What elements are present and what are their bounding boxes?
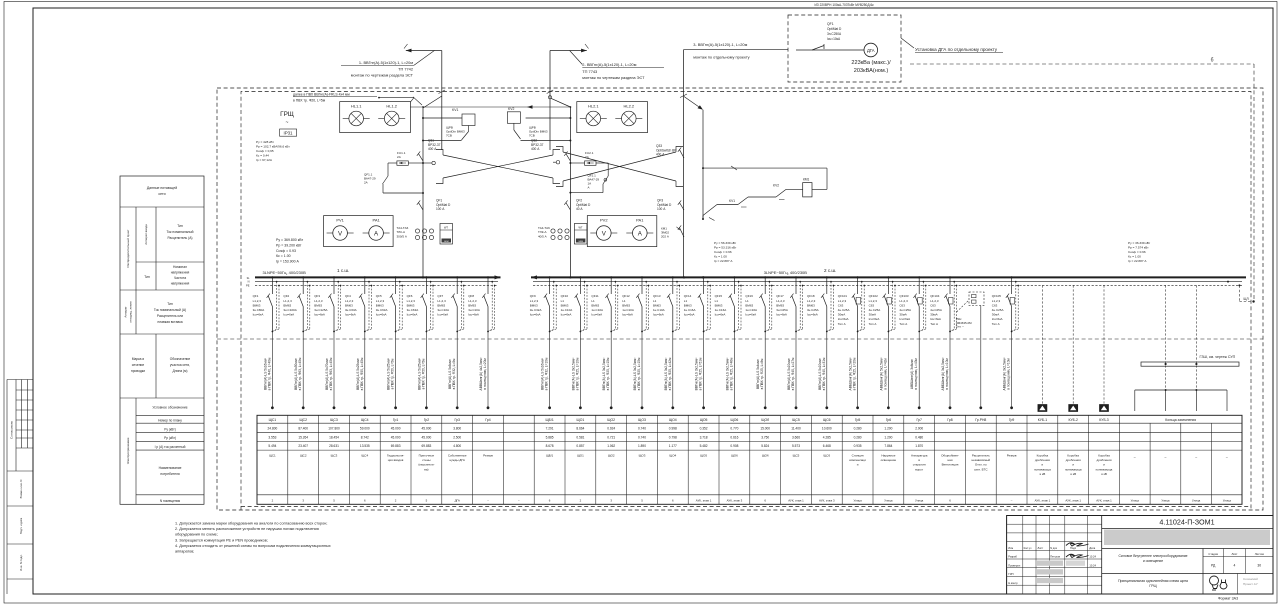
svg-text:23.407: 23.407 <box>298 444 308 448</box>
switch Q31 <box>417 139 441 162</box>
svg-text:KV1: KV1 <box>452 108 459 112</box>
svg-text:2. Допускается менять располож: 2. Допускается менять расположение устро… <box>175 527 319 531</box>
svg-text:ВМ63: ВМ63 <box>745 303 753 307</box>
svg-text:L1,2,3: L1,2,3 <box>376 299 385 303</box>
svg-text:1. Допускается замена марки об: 1. Допускается замена марки оборудования… <box>175 522 327 526</box>
svg-text:открытия: открытия <box>913 463 926 467</box>
svg-text:Cosф = 0.96: Cosф = 0.96 <box>1128 250 1146 254</box>
svg-text:ВМ63: ВМ63 <box>807 303 815 307</box>
relay KV2 text <box>529 126 548 138</box>
svg-text:Силовое Внутреннее электрообор: Силовое Внутреннее электрооборудование <box>1118 554 1187 558</box>
svg-text:203кВА(ном.): 203кВА(ном.) <box>854 68 889 74</box>
svg-text:400 А: 400 А <box>531 147 540 151</box>
svg-text:(перспекти-: (перспекти- <box>418 463 434 467</box>
svg-text:АУК, этаж 3: АУК, этаж 3 <box>727 499 743 503</box>
svg-text:сигн. БТС: сигн. БТС <box>974 467 988 471</box>
svg-text:сечение: сечение <box>132 363 145 367</box>
breaker QF2 incomer <box>564 199 591 212</box>
svg-text:в помещении, L=20м: в помещении, L=20м <box>483 358 487 390</box>
CT TA4-TA6 incomer1 <box>397 226 434 240</box>
svg-text:оборудования по схеме;: оборудования по схеме; <box>175 533 218 537</box>
svg-text:Гр2: Гр2 <box>424 418 430 422</box>
svg-text:Тип А: Тип А <box>869 322 877 326</box>
lamp box 1 feed wire <box>378 97 414 102</box>
svg-text:Проект А.Г: Проект А.Г <box>1243 582 1259 586</box>
svg-text:монтаж по отдельному проекту: монтаж по отдельному проекту <box>693 54 749 59</box>
svg-text:Формат 3А3: Формат 3А3 <box>1218 597 1238 601</box>
left table row Условное обозначение <box>152 406 187 410</box>
svg-text:дробления: дробления <box>1035 458 1050 462</box>
svg-text:в помещении, L=10м: в помещении, L=10м <box>945 358 949 390</box>
DGA dashed box <box>788 15 901 82</box>
svg-text:QF6: QF6 <box>407 294 413 298</box>
svg-text:2.000: 2.000 <box>915 426 923 430</box>
svg-text:QF9: QF9 <box>530 294 536 298</box>
svg-text:2А: 2А <box>364 181 368 185</box>
svg-text:Улица: Улица <box>1192 499 1201 503</box>
svg-text:Установка ДГА по отдельному пр: Установка ДГА по отдельному проекту <box>915 47 998 52</box>
svg-text:освещение: освещение <box>881 458 897 462</box>
feeder breaker QF103 col 22 <box>899 276 926 409</box>
svg-text:L1: L1 <box>591 299 595 303</box>
left table row Аппарат отходящей линии <box>124 301 187 324</box>
bus junction DGA <box>683 276 704 278</box>
kWh meter incomer 1 <box>440 224 453 245</box>
svg-text:0.352: 0.352 <box>700 426 708 430</box>
switch Q32 <box>531 139 570 162</box>
svg-text:Тип: Тип <box>177 224 183 228</box>
svg-text:Ру = 36.339 кВт: Ру = 36.339 кВт <box>1128 241 1151 245</box>
kWh meter incomer 2 <box>574 224 587 245</box>
svg-text:QF101: QF101 <box>838 294 848 298</box>
svg-text:ЩС6: ЩС6 <box>823 418 831 422</box>
svg-text:Расцепитель: Расцепитель <box>972 454 990 458</box>
feeder breaker QF8 col 8 <box>468 276 495 409</box>
left table row N помещения <box>160 499 181 503</box>
svg-text:Собственные: Собственные <box>448 454 467 458</box>
left table row Номер по плану <box>158 419 182 423</box>
svg-text:3н.С25А: 3н.С25А <box>776 308 788 312</box>
svg-text:Взамен инв. N: Взамен инв. N <box>19 480 23 499</box>
svg-text:ция вводов: ция вводов <box>388 458 404 462</box>
feeder breaker QF2 col 2 <box>283 276 310 409</box>
svg-text:АУК, этаж 1: АУК, этаж 1 <box>1096 499 1112 503</box>
bus params section2 <box>714 241 737 263</box>
left table grid <box>120 176 204 504</box>
svg-text:Гр1: Гр1 <box>393 418 399 422</box>
svg-text:ГРЩ: ГРЩ <box>280 111 294 118</box>
svg-text:0.280: 0.280 <box>854 426 862 430</box>
svg-text:я кВ: я кВ <box>1070 472 1076 476</box>
svg-text:монтаж по чертежам раздела ЭСТ: монтаж по чертежам раздела ЭСТ <box>582 75 645 80</box>
svg-text:0.280: 0.280 <box>854 435 862 439</box>
svg-text:4.285: 4.285 <box>823 435 831 439</box>
svg-text:8.678: 8.678 <box>546 444 554 448</box>
svg-text:Тип: Тип <box>167 302 173 306</box>
svg-text:КМ1: КМ1 <box>803 178 810 182</box>
svg-text:1.177: 1.177 <box>669 444 677 448</box>
svg-text:QF1: QF1 <box>827 22 834 26</box>
svg-text:3н.С250А: 3н.С250А <box>827 32 842 36</box>
dashed link b to right side <box>910 58 1254 302</box>
feeder breaker QF3 col 3 <box>314 276 341 409</box>
svg-text:Icu=6кА: Icu=6кА <box>653 313 664 317</box>
svg-text:Номинал: Номинал <box>173 265 187 269</box>
svg-text:400 А: 400 А <box>656 153 665 157</box>
KM1 control circuit <box>702 166 827 221</box>
svg-text:–: – <box>1226 455 1228 459</box>
svg-text:независимый: независимый <box>971 458 990 462</box>
changeover terminal 2 <box>553 161 560 164</box>
svg-text:ВМ63: ВМ63 <box>468 303 476 307</box>
svg-text:я кВ: я кВ <box>1040 472 1046 476</box>
title block signatures <box>1008 543 1096 585</box>
svg-text:Изм: Изм <box>1008 546 1013 550</box>
breaker QF3 <box>657 199 684 212</box>
svg-text:Icu=10кА: Icu=10кА <box>827 37 841 41</box>
svg-text:L1,2,3: L1,2,3 <box>899 299 908 303</box>
feeder breaker QF5 col 5 <box>376 276 403 409</box>
svg-text:напряжения: напряжения <box>171 271 190 275</box>
relay KV1 branch <box>422 108 475 142</box>
svg-text:QF1: QF1 <box>253 294 259 298</box>
svg-text:Принципиальная однолинейная сх: Принципиальная однолинейная схема щита <box>1118 579 1188 583</box>
bus params section1 <box>276 238 303 264</box>
svg-text:1н.С16А: 1н.С16А <box>715 308 727 312</box>
svg-text:ЩС6: ЩС6 <box>823 454 830 458</box>
PE conductor <box>255 284 1242 286</box>
svg-text:L1,2,3: L1,2,3 <box>992 299 1001 303</box>
svg-text:нужды ДГА: нужды ДГА <box>449 458 464 462</box>
svg-text:3н.С125А: 3н.С125А <box>314 308 327 312</box>
feeder breaker QF4 col 4 <box>345 276 372 409</box>
svg-text:4н.С25А: 4н.С25А <box>899 308 911 312</box>
svg-text:L1,2,3: L1,2,3 <box>345 299 354 303</box>
earthing ring connections <box>1135 285 1227 411</box>
svg-text:Рр = 102,7 кВА/96,6 кВт: Рр = 102,7 кВА/96,6 кВт <box>256 145 290 149</box>
svg-text:КУБ-1: КУБ-1 <box>1038 418 1048 422</box>
svg-text:в ПВХ тр. Ф25, L=42м: в ПВХ тр. Ф25, L=42м <box>668 357 672 390</box>
svg-text:и освещение: и освещение <box>1143 559 1163 563</box>
svg-text:монтаж по чертежам раздела ЭСТ: монтаж по чертежам раздела ЭСТ <box>351 73 414 78</box>
load table values row 3 <box>268 444 923 448</box>
svg-text:–: – <box>1165 455 1167 459</box>
svg-text:С63: С63 <box>930 303 936 307</box>
left table row Iр <box>155 445 186 449</box>
svg-text:3.553: 3.553 <box>268 435 276 439</box>
svg-text:300/5 А: 300/5 А <box>397 234 407 238</box>
DGA box top label <box>814 3 874 7</box>
svg-text:ДГА: ДГА <box>867 48 875 53</box>
svg-text:N док: N док <box>1050 546 1058 550</box>
svg-text:QF10: QF10 <box>561 294 569 298</box>
svg-text:понижающа: понижающа <box>1065 467 1082 471</box>
svg-text:4н.С25А: 4н.С25А <box>838 308 850 312</box>
svg-text:Коробка: Коробка <box>1098 454 1110 458</box>
fuse FU1.1 branch <box>383 151 425 194</box>
GRSh parameters text <box>256 140 290 162</box>
svg-text:Распределительный пункт: Распределительный пункт <box>126 229 130 267</box>
svg-text:59.000: 59.000 <box>360 426 370 430</box>
svg-text:в ПВХ тр. Ф25, L=20м: в ПВХ тр. Ф25, L=20м <box>853 357 857 390</box>
svg-text:Сочинский: Сочинский <box>1243 577 1258 581</box>
relay KV2 branch <box>507 107 571 142</box>
svg-text:Согласовано: Согласовано <box>10 421 14 439</box>
svg-text:в ПВХ тр. Ф25, L=8м: в ПВХ тр. Ф25, L=8м <box>760 358 764 390</box>
svg-text:3.750: 3.750 <box>761 435 769 439</box>
svg-text:аппаратов;: аппаратов; <box>175 550 194 554</box>
svg-text:Подп. и дата: Подп. и дата <box>19 517 23 534</box>
load table values row 1 <box>268 426 924 430</box>
title block doc number <box>1102 518 1273 529</box>
svg-text:ВМ63: ВМ63 <box>253 303 261 307</box>
feeder breaker QF11 col 12 <box>591 276 618 409</box>
svg-text:Рр (кВт): Рр (кВт) <box>164 436 176 440</box>
svg-text:ЩО2: ЩО2 <box>607 418 615 422</box>
svg-text:7СВ: 7СВ <box>446 134 452 138</box>
svg-text:QF11: QF11 <box>591 294 599 298</box>
svg-text:3LNPE~50Гц, 400/230В: 3LNPE~50Гц, 400/230В <box>764 270 808 275</box>
svg-text:Тип: Тип <box>144 275 150 279</box>
svg-text:ЩС5: ЩС5 <box>793 454 800 458</box>
svg-text:PA1: PA1 <box>636 218 644 223</box>
svg-text:45.000: 45.000 <box>391 426 401 430</box>
svg-text:7СВ: 7СВ <box>529 134 535 138</box>
svg-text:далее в ПВХ ВВГнг(А)-FRLS 4х4: далее в ПВХ ВВГнг(А)-FRLS 4х4 мм <box>293 93 350 97</box>
svg-text:Аппаратура: Аппаратура <box>911 454 928 458</box>
left table row Распределительный пункт <box>126 229 130 267</box>
svg-text:Гр.РН8: Гр.РН8 <box>975 418 986 422</box>
svg-text:10.24: 10.24 <box>1089 563 1096 567</box>
svg-text:Cosф = 0,95: Cosф = 0,95 <box>256 149 274 153</box>
svg-text:Листов: Листов <box>1255 552 1265 556</box>
left stamp Инв N подл <box>7 554 33 579</box>
junction box KUB-1 drop <box>1038 285 1047 411</box>
svg-text:Длина (м): Длина (м) <box>172 369 187 373</box>
svg-text:PA1: PA1 <box>372 218 380 223</box>
svg-text:30мА: 30мА <box>899 313 906 317</box>
svg-text:QF5: QF5 <box>376 294 382 298</box>
left stamp Взамен инв N <box>7 480 33 506</box>
incomer 1 supply wire <box>404 44 442 52</box>
svg-text:KV2: KV2 <box>773 184 779 188</box>
svg-text:Icu=6кА: Icu=6кА <box>345 313 356 317</box>
svg-text:в ПВХ тр. Ф32, L=10м: в ПВХ тр. Ф32, L=10м <box>545 357 549 390</box>
lamp box HL2.1 HL2.2 <box>577 102 648 133</box>
svg-text:L1: L1 <box>684 299 688 303</box>
svg-text:30мА: 30мА <box>869 313 876 317</box>
svg-text:ЩО4: ЩО4 <box>669 454 676 458</box>
svg-text:ЩОб: ЩОб <box>761 418 769 422</box>
svg-text:КУБ-3: КУБ-3 <box>1099 418 1109 422</box>
title block stadia grid <box>1203 549 1273 595</box>
switch Q33 <box>656 144 684 158</box>
svg-text:Ру (кВт): Ру (кВт) <box>164 428 176 432</box>
svg-text:Улица: Улица <box>1131 499 1140 503</box>
svg-text:69.883: 69.883 <box>422 444 432 448</box>
svg-text:1н.С10А: 1н.С10А <box>653 308 665 312</box>
meter box PV2 PA1 <box>587 216 657 247</box>
svg-text:3.718: 3.718 <box>700 435 708 439</box>
breaker QF1 DGA label <box>827 22 842 41</box>
svg-text:QF104: QF104 <box>930 294 940 298</box>
svg-text:стены: стены <box>422 458 430 462</box>
svg-text:–: – <box>1195 455 1197 459</box>
svg-text:ва): ва) <box>424 467 428 471</box>
svg-text:Гр6: Гр6 <box>886 418 892 422</box>
svg-text:3н.С63А: 3н.С63А <box>345 308 357 312</box>
svg-text:–: – <box>1134 455 1136 459</box>
svg-text:0.581: 0.581 <box>576 435 584 439</box>
svg-text:ЩО2: ЩО2 <box>608 454 615 458</box>
title block sheet name <box>1102 574 1273 589</box>
svg-text:Iр = 22.887 А: Iр = 22.887 А <box>714 259 733 263</box>
svg-text:в ПВХ тр. Ф25, L=15м: в ПВХ тр. Ф25, L=15м <box>637 357 641 390</box>
svg-text:HL2.2: HL2.2 <box>623 104 634 109</box>
svg-text:в ПВХ тр. Ф32, L=5м: в ПВХ тр. Ф32, L=5м <box>452 358 456 390</box>
svg-text:в помещении, L=43м: в помещении, L=43м <box>914 358 918 390</box>
svg-text:4. Допускается отходить от реш: 4. Допускается отходить от решений схемы… <box>175 544 331 548</box>
feeder breaker QF101 col 20 <box>838 276 865 409</box>
svg-text:18.454: 18.454 <box>329 435 339 439</box>
svg-text:Обозначение: Обозначение <box>170 357 191 361</box>
svg-text:ЩО6: ЩО6 <box>731 454 738 458</box>
svg-text:0.924: 0.924 <box>607 426 615 430</box>
svg-text:0.480: 0.480 <box>915 435 923 439</box>
svg-text:Общеобмен-: Общеобмен- <box>941 454 959 458</box>
busbar section 2 <box>531 275 1246 279</box>
feeder breaker QF9 col 10 <box>530 276 557 409</box>
svg-text:N помещения: N помещения <box>160 499 181 503</box>
svg-text:Icu=6кА: Icu=6кА <box>253 313 264 317</box>
svg-text:Улица: Улица <box>853 499 862 503</box>
svg-text:11.400: 11.400 <box>791 426 801 430</box>
svg-text:ЩО6: ЩО6 <box>731 418 739 422</box>
notes list <box>175 522 331 554</box>
svg-text:3н.С80А: 3н.С80А <box>253 308 265 312</box>
svg-text:Кольца заземления: Кольца заземления <box>1165 418 1196 422</box>
bus1 label <box>263 268 350 275</box>
svg-text:4н.С25А: 4н.С25А <box>930 308 942 312</box>
svg-text:ЩС4: ЩС4 <box>361 454 368 458</box>
svg-text:Наименование: Наименование <box>159 466 182 470</box>
svg-text:Icu=6кА: Icu=6кА <box>468 313 479 317</box>
svg-text:Ток номинальный (А): Ток номинальный (А) <box>154 308 186 312</box>
svg-text:QF105: QF105 <box>992 294 1002 298</box>
bus params right <box>1128 241 1151 263</box>
svg-text:1 с.ш.: 1 с.ш. <box>337 268 349 273</box>
svg-text:Рр = 53.316 кВт: Рр = 53.316 кВт <box>714 246 737 250</box>
svg-text:в ПВХ тр. Ф50, L=5м: в ПВХ тр. Ф50, L=5м <box>391 358 395 390</box>
svg-text:в ПВХ тр. Ф40, L=40м: в ПВХ тр. Ф40, L=40м <box>267 357 271 390</box>
svg-text:HL2.1: HL2.1 <box>588 104 599 109</box>
svg-text:Гр5: Гр5 <box>855 418 861 422</box>
feeder breaker QF12 col 13 <box>622 276 649 409</box>
svg-text:L1: L1 <box>745 299 749 303</box>
svg-text:Icu=6кА: Icu=6кА <box>622 313 633 317</box>
svg-text:Рр = 7.574 кВт: Рр = 7.574 кВт <box>1128 246 1149 250</box>
cable 3 note <box>693 42 749 59</box>
changeover cross 1 <box>436 150 560 184</box>
svg-text:3н.С10А: 3н.С10А <box>468 308 480 312</box>
svg-text:Ру = 56.339 кВт: Ру = 56.339 кВт <box>714 241 737 245</box>
svg-text:Icu=6кА: Icu=6кА <box>684 313 695 317</box>
svg-text:ЩО5: ЩО5 <box>700 454 707 458</box>
svg-text:Данные питающей: Данные питающей <box>147 186 177 190</box>
svg-text:Icu=6кА: Icu=6кА <box>992 317 1003 321</box>
svg-text:100 А: 100 А <box>436 207 445 211</box>
svg-text:45.000: 45.000 <box>422 435 432 439</box>
svg-text:L1,2,3: L1,2,3 <box>838 299 847 303</box>
svg-text:QF13: QF13 <box>653 294 661 298</box>
svg-text:ВМ63: ВМ63 <box>591 303 599 307</box>
svg-text:компенсаци: компенсаци <box>849 458 866 462</box>
feeder breaker QF1 col 1 <box>253 276 280 409</box>
svg-text:АУК, этаж 1: АУК, этаж 1 <box>1065 499 1081 503</box>
svg-text:OptiMat D: OptiMat D <box>827 27 842 31</box>
svg-text:QF18: QF18 <box>807 294 815 298</box>
changeover cross 2 <box>556 147 683 187</box>
svg-text:L1,2,3: L1,2,3 <box>407 299 416 303</box>
svg-text:Условное обозначение: Условное обозначение <box>152 406 187 410</box>
svg-text:Вентиляция: Вентиляция <box>942 463 959 467</box>
svg-text:PE: PE <box>246 283 250 287</box>
svg-text:ЩО4: ЩО4 <box>669 418 677 422</box>
svg-text:Инв. N подл.: Инв. N подл. <box>19 554 23 571</box>
svg-text:Icu=6кА: Icu=6кА <box>899 317 910 321</box>
svg-text:WT: WT <box>444 226 448 230</box>
svg-text:ВМ63: ВМ63 <box>653 303 661 307</box>
svg-text:понижающа: понижающа <box>1096 467 1113 471</box>
svg-text:40/5 А: 40/5 А <box>538 234 547 238</box>
svg-text:ЭКМ: ЭКМ <box>578 241 583 243</box>
svg-text:L1,2,3: L1,2,3 <box>437 299 446 303</box>
svg-text:ВМ63: ВМ63 <box>314 303 322 307</box>
svg-text:Icu=6кА: Icu=6кА <box>715 313 726 317</box>
svg-text:28.631: 28.631 <box>329 444 339 448</box>
svg-text:Iр = 153.900 А: Iр = 153.900 А <box>276 260 300 264</box>
breaker QF2.1 label <box>588 174 600 190</box>
svg-text:ная: ная <box>948 458 953 462</box>
svg-text:24.800: 24.800 <box>268 426 278 430</box>
svg-text:10.600: 10.600 <box>822 426 832 430</box>
svg-text:Стадия: Стадия <box>1208 552 1218 556</box>
cable 2 note <box>570 51 664 81</box>
svg-text:15.000: 15.000 <box>760 426 770 430</box>
svg-text:ВМ63: ВМ63 <box>622 303 630 307</box>
svg-text:в ПВХ тр. Ф50, L=45м: в ПВХ тр. Ф50, L=45м <box>360 357 364 390</box>
svg-text:4н.С25А: 4н.С25А <box>869 308 881 312</box>
svg-text:0.721: 0.721 <box>607 435 615 439</box>
svg-text:13.535: 13.535 <box>360 444 370 448</box>
svg-text:3.666: 3.666 <box>792 435 800 439</box>
svg-text:1- ВВГнг(А)-5(1х120)-1, L=20м: 1- ВВГнг(А)-5(1х120)-1, L=20м <box>359 60 413 65</box>
svg-text:0.740: 0.740 <box>638 426 646 430</box>
feeder breaker QF6 col 6 <box>407 276 434 409</box>
title block frame <box>1007 516 1273 595</box>
svg-text:Разраб: Разраб <box>1008 555 1017 559</box>
svg-text:Гр7: Гр7 <box>916 418 922 422</box>
svg-text:ЩО3: ЩО3 <box>639 454 646 458</box>
left table row Марка и сечение проводки <box>131 357 190 373</box>
svg-text:40 А: 40 А <box>576 207 583 211</box>
svg-text:3.800: 3.800 <box>453 426 461 430</box>
N conductor <box>255 281 1242 283</box>
svg-text:2- ВВГнг(А)-5(1х120)-1, L=20м: 2- ВВГнг(А)-5(1х120)-1, L=20м <box>582 62 636 67</box>
svg-text:4.11024-П-ЗОМ1: 4.11024-П-ЗОМ1 <box>1159 518 1214 527</box>
dashed separator under breakers <box>217 338 1263 340</box>
svg-text:Аппарат: Аппарат <box>124 306 128 318</box>
